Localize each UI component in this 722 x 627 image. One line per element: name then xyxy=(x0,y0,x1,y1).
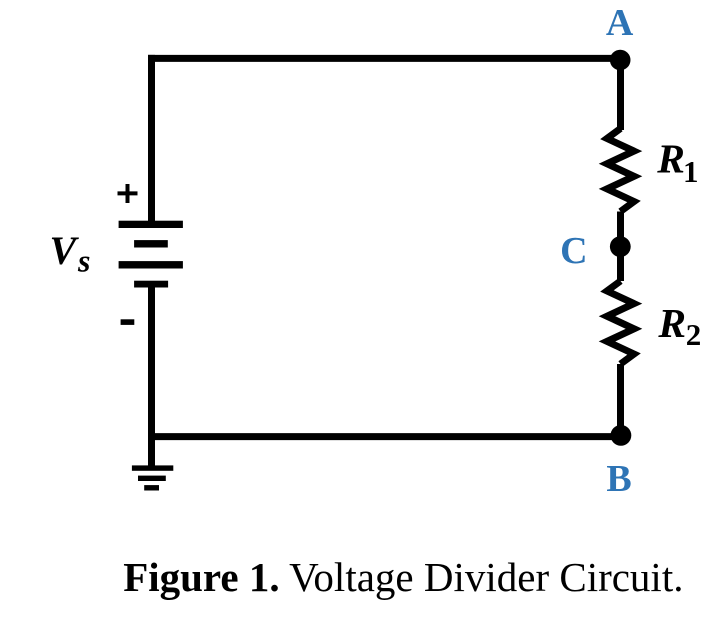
svg-text:V: V xyxy=(50,228,80,273)
svg-text:C: C xyxy=(560,230,587,272)
svg-text:R: R xyxy=(657,300,686,346)
wire right vertical bottom (R2 to B) xyxy=(617,364,624,437)
battery V_s plate 4 (bottom short, -) xyxy=(134,281,168,288)
battery V_s plate 1 (top long, +) xyxy=(119,221,183,228)
svg-text:2: 2 xyxy=(686,317,702,352)
wire top horizontal xyxy=(148,55,621,62)
resistor R1 zigzag xyxy=(607,129,634,212)
battery V_s plate 3 (long) xyxy=(119,261,183,268)
svg-text:A: A xyxy=(606,2,634,44)
label V_s xyxy=(50,228,91,279)
label R1 xyxy=(656,136,698,190)
wire right vertical R1 to node C xyxy=(617,212,624,247)
plus polarity label xyxy=(118,184,138,203)
wire right vertical node C to R2 xyxy=(617,247,624,281)
resistor R2 zigzag xyxy=(607,281,634,364)
wire left vertical lower xyxy=(148,284,155,437)
svg-text:Figure 1. Voltage Divider Circ: Figure 1. Voltage Divider Circuit. xyxy=(123,554,683,600)
svg-text:s: s xyxy=(77,243,90,279)
minus polarity label xyxy=(121,319,135,325)
battery V_s plate 2 (short) xyxy=(134,240,168,247)
label R2 xyxy=(657,300,701,352)
node A junction dot xyxy=(610,50,631,71)
svg-text:B: B xyxy=(606,458,631,500)
ground symbol xyxy=(132,465,173,490)
svg-text:R: R xyxy=(656,136,685,182)
ground stub wire xyxy=(148,437,155,466)
wire bottom horizontal xyxy=(148,433,621,440)
svg-text:1: 1 xyxy=(683,154,699,189)
wire right vertical top (A to R1) xyxy=(617,58,624,130)
wire left vertical upper xyxy=(148,55,155,222)
node C junction dot xyxy=(610,236,631,257)
node B junction dot xyxy=(611,425,632,446)
